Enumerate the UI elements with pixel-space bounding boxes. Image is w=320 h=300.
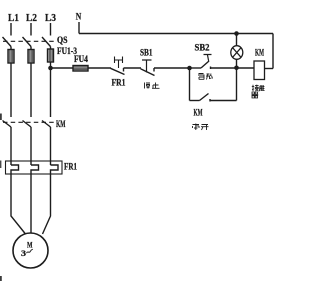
fuse FU4	[73, 66, 88, 72]
svg-text:KM: KM	[255, 48, 264, 58]
wire pole3 FR1 to motor	[43, 174, 51, 234]
FR1 heater element pole2	[31, 165, 39, 174]
pushbutton SB2 blade (NO start)	[201, 61, 209, 68]
KM linkage dashed line	[3, 121, 56, 123]
wire L1 top	[10, 23, 12, 36]
svg-text:KM: KM	[56, 119, 66, 129]
scan artifact left edge 3	[0, 276, 2, 281]
lamp bottom stub	[236, 59, 238, 68]
contactor (jie chu qi) label	[252, 85, 265, 98]
wire L3 fuse to KM	[50, 62, 52, 117]
FR1 NC contact right tick	[123, 68, 125, 72]
contactor KM pole 1 blade	[3, 121, 12, 128]
neutral wire N horizontal	[79, 33, 273, 35]
svg-text:L1: L1	[8, 13, 19, 24]
start (qi dong) label	[198, 74, 213, 80]
normally-open (chang kai) label	[193, 124, 209, 131]
svg-text:M: M	[27, 241, 33, 250]
lamp top stub	[236, 34, 238, 47]
motor M circle	[13, 233, 48, 268]
pushbutton SB1 actuator	[142, 60, 152, 73]
wire QS blades to fuses stubs	[11, 47, 51, 51]
svg-text:QS: QS	[57, 35, 68, 45]
wire SB1 to junction	[154, 67, 190, 69]
node junction lamp top (on N)	[234, 31, 239, 36]
wire lamp node to coil	[237, 67, 255, 69]
wire L3 top	[50, 23, 52, 36]
FR1 NC contact blade	[111, 68, 125, 74]
neutral N stub	[78, 22, 80, 34]
svg-text:FU4: FU4	[74, 54, 88, 64]
svg-text:L2: L2	[26, 13, 37, 24]
control wire from L3 junction to FU4	[51, 67, 74, 69]
wire pole2 FR1 to motor	[30, 174, 32, 233]
wire pole2 KM to FR1	[30, 127, 32, 165]
scan artifact left edge 2	[0, 161, 2, 169]
switch QS pole 1 blade	[3, 37, 12, 47]
FR1 NC contact stem and release bracket	[115, 57, 123, 69]
KM aux branch left vertical	[189, 68, 191, 101]
KM aux branch bottom left wire	[190, 100, 200, 102]
QS linkage dashed line	[3, 40, 56, 42]
wire junction to SB2	[190, 67, 202, 69]
svg-text:FR1: FR1	[112, 78, 126, 88]
contactor KM pole 3 blade	[42, 121, 51, 128]
switch QS pole 3 blade	[42, 37, 51, 47]
svg-text:L3: L3	[45, 13, 56, 24]
wire L2 fuse to KM	[30, 63, 32, 117]
wire right vertical (N to coil)	[272, 34, 274, 69]
contact KM auxiliary right tick	[209, 99, 211, 102]
fuse FU3	[48, 49, 54, 62]
wire L1 fuse to KM	[10, 63, 12, 117]
pushbutton SB2 right tick	[210, 67, 212, 70]
wire pole3 KM to FR1	[50, 127, 52, 165]
FR1 heater element pole3	[51, 165, 59, 174]
svg-text:SB1: SB1	[140, 48, 153, 58]
FR1 heater element pole1	[11, 165, 19, 174]
KM aux branch bottom right wire	[210, 100, 237, 102]
wire FU4 to FR1 contact	[88, 67, 111, 69]
svg-text:SB2: SB2	[195, 43, 210, 53]
svg-text:KM: KM	[194, 108, 203, 118]
svg-text:N: N	[76, 12, 82, 22]
fuse FU2	[28, 50, 34, 64]
motor phase tilde	[27, 249, 33, 253]
node junction before SB2	[187, 66, 192, 71]
coil KM rectangle	[254, 61, 265, 80]
fuse FU1	[8, 50, 14, 64]
pushbutton SB2 actuator	[204, 55, 212, 62]
wire SB2 to lamp node	[211, 67, 237, 69]
scan artifact left edge 1	[0, 114, 2, 121]
thermal relay FR1 box	[6, 161, 63, 174]
switch QS pole 2 blade	[23, 37, 32, 47]
pushbutton SB1 right tick	[153, 68, 155, 72]
KM aux branch right vertical	[236, 68, 238, 101]
contactor KM pole 2 blade	[23, 121, 32, 128]
indicator lamp	[231, 46, 243, 60]
wire pole1 FR1 to motor	[11, 174, 26, 234]
wire L2 top	[30, 23, 32, 36]
stop (ting zhi) label	[145, 83, 160, 89]
svg-text:3: 3	[21, 249, 26, 258]
pushbutton SB1 blade (NC stop)	[141, 69, 155, 76]
contact KM auxiliary NO blade	[200, 94, 209, 101]
wire FR1 contact to SB1	[124, 67, 142, 69]
node junction lamp bottom	[234, 66, 239, 71]
wire pole1 KM to FR1	[10, 127, 12, 165]
svg-text:FR1: FR1	[64, 162, 77, 172]
wire coil to right vertical	[265, 68, 274, 70]
node junction on L3	[48, 66, 53, 71]
